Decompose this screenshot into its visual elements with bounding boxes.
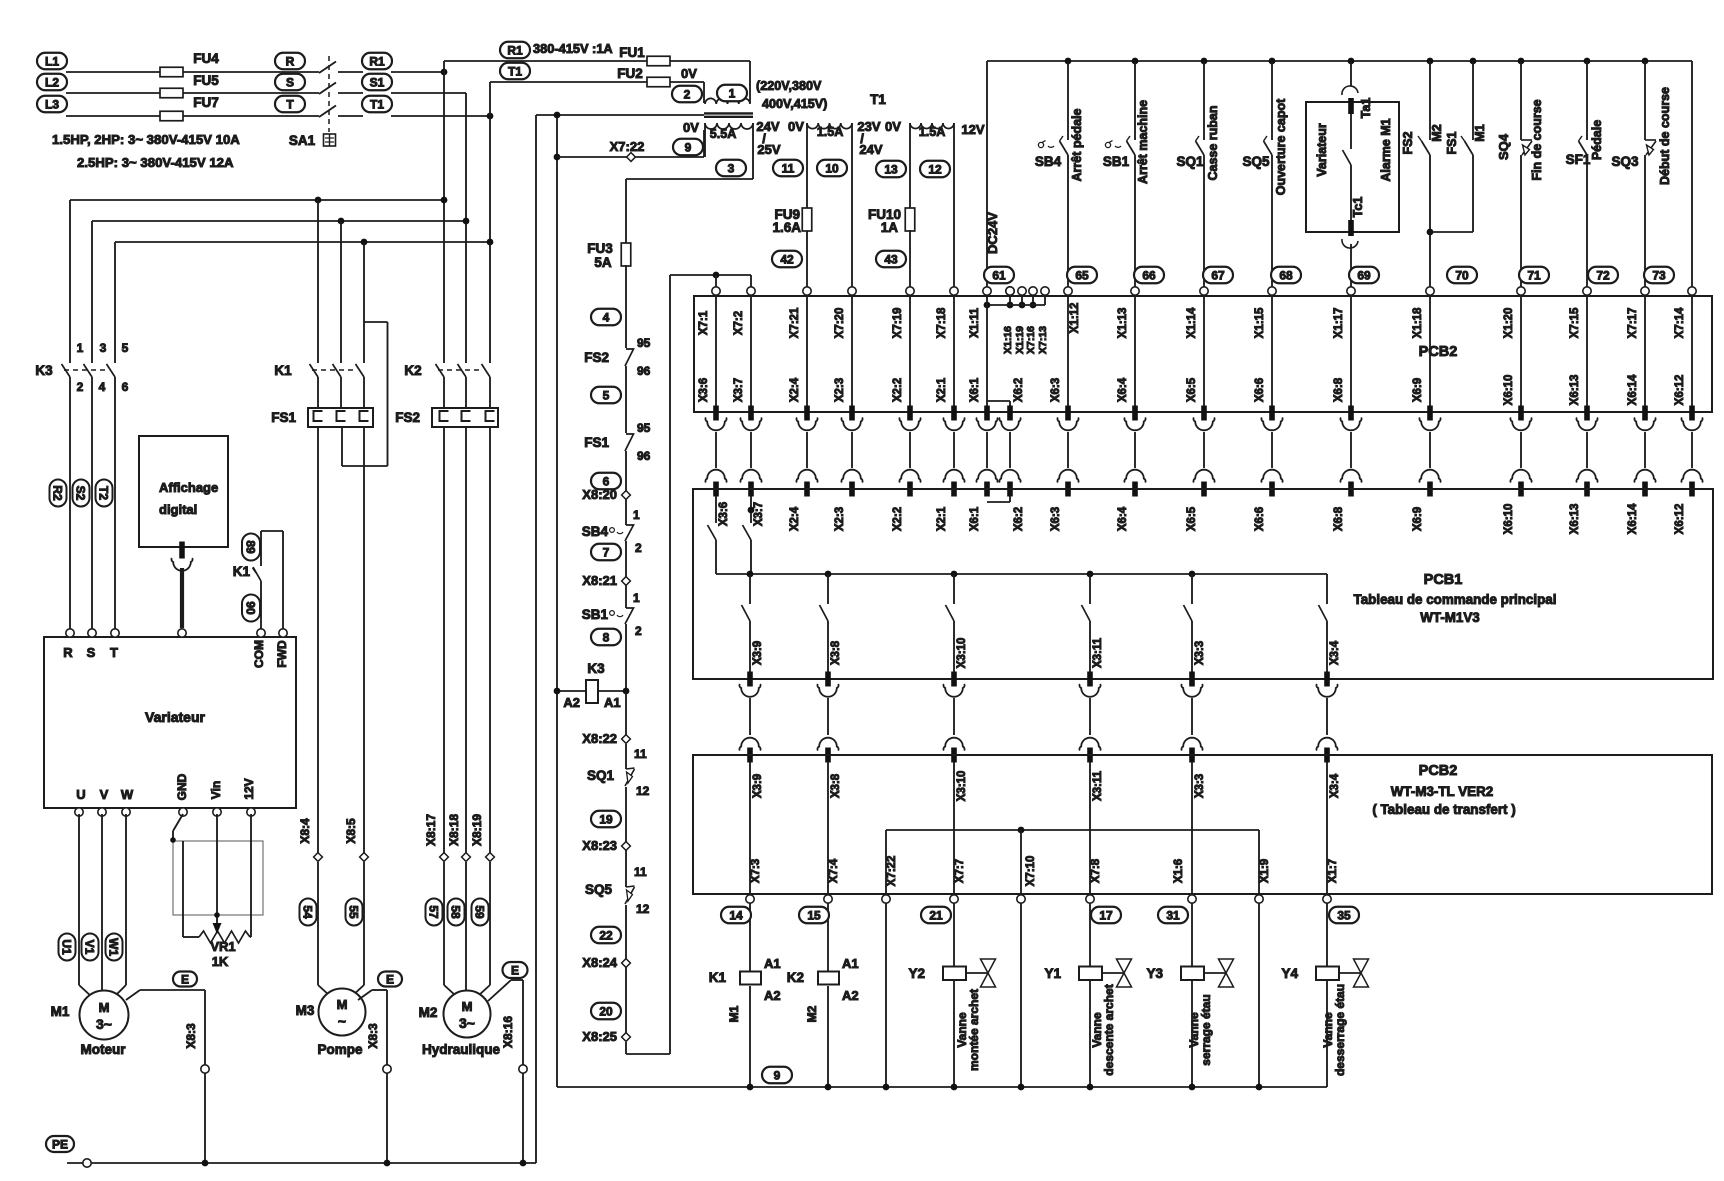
svg-text:24V: 24V: [756, 119, 779, 134]
wire: [1067, 432, 1069, 468]
svg-text:T: T: [286, 97, 294, 111]
node T1: [362, 96, 392, 113]
wire: [885, 830, 887, 895]
wire: [1429, 296, 1431, 406]
svg-text:X6:2: X6:2: [1013, 507, 1025, 531]
pin circle X7:21: [803, 287, 811, 295]
svg-text:65: 65: [1075, 268, 1089, 282]
wire: [827, 698, 829, 735]
connector pin X6:6 lower: [1269, 482, 1275, 497]
svg-text:FS1: FS1: [271, 410, 296, 425]
svg-text:X8:23: X8:23: [582, 838, 617, 853]
svg-text:61: 61: [992, 268, 1006, 282]
svg-text:X6:8: X6:8: [1333, 377, 1345, 402]
svg-text:R2: R2: [51, 485, 65, 501]
svg-text:17: 17: [1099, 908, 1113, 922]
node 2: [672, 86, 702, 103]
node 43: [876, 251, 906, 268]
wire M3 phase b: [363, 427, 365, 857]
contact X3:8: [827, 574, 829, 604]
wire: [806, 432, 808, 468]
svg-text:1: 1: [633, 591, 640, 605]
pin circle X1:12: [1064, 287, 1072, 295]
node 10: [817, 160, 847, 177]
wire: [885, 903, 887, 1087]
wire: [953, 903, 955, 967]
svg-text:12: 12: [636, 784, 650, 798]
svg-text:X7:13: X7:13: [1037, 326, 1049, 354]
wire: [1089, 903, 1091, 967]
svg-text:X8:19: X8:19: [470, 814, 484, 846]
connector pin X2:4 lower: [804, 482, 810, 497]
connector pin X3:6 lower: [713, 482, 719, 497]
control ladder rail: [625, 265, 627, 348]
node 13: [876, 161, 906, 178]
svg-text:6: 6: [122, 380, 129, 394]
svg-text:66: 66: [1142, 268, 1156, 282]
svg-text:K1: K1: [709, 970, 727, 985]
switch SA1 operator: [324, 134, 336, 146]
svg-text:4: 4: [603, 310, 610, 324]
connector pin X6:12 lower: [1689, 482, 1695, 497]
svg-text:Vin: Vin: [209, 781, 223, 799]
switch SF1: [1584, 58, 1591, 65]
contact X3:6: [715, 496, 717, 523]
valve Y2: [981, 959, 996, 973]
svg-text:WT-M3-TL VER2: WT-M3-TL VER2: [1391, 784, 1493, 799]
wire: [1520, 296, 1522, 406]
svg-text:X7:1: X7:1: [698, 310, 710, 335]
wire: [1020, 903, 1022, 1087]
svg-text:R: R: [286, 54, 295, 68]
svg-text:89: 89: [244, 540, 258, 554]
svg-text:Y2: Y2: [908, 966, 925, 981]
switch SB4: [1065, 58, 1072, 65]
svg-text:12V: 12V: [242, 778, 256, 799]
contact X3:7: [750, 496, 752, 523]
terminal X8:23: [622, 842, 631, 851]
wire: [953, 762, 955, 895]
svg-text:W: W: [121, 787, 134, 802]
switch SA1 pole: [319, 83, 336, 95]
wire: [114, 377, 116, 634]
svg-text:U1: U1: [60, 939, 74, 955]
fuse FU2: [647, 77, 670, 87]
svg-text:24V: 24V: [859, 142, 882, 157]
connector pin X6:2 lower: [1007, 482, 1013, 497]
node 67: [1203, 267, 1233, 284]
wire: [953, 432, 955, 468]
connector pin X6:13: [1584, 406, 1590, 421]
contact X3:3: [1191, 574, 1193, 604]
svg-text:descente archet: descente archet: [1102, 984, 1116, 1075]
connector pin X3:6: [713, 406, 719, 421]
svg-text:(220V,380V: (220V,380V: [756, 79, 822, 93]
svg-text:5: 5: [122, 341, 129, 355]
node 70: [1447, 267, 1477, 284]
wire: [1020, 830, 1022, 895]
svg-text:R: R: [63, 645, 73, 660]
svg-text:X3:7: X3:7: [733, 378, 745, 402]
svg-text:K3: K3: [587, 661, 605, 676]
wire screen to earth: [536, 114, 704, 116]
svg-text:Pompe: Pompe: [317, 1042, 363, 1057]
svg-text:K1: K1: [274, 363, 292, 378]
node 3: [716, 160, 746, 177]
node R: [275, 53, 305, 70]
terminal X8:24: [622, 959, 631, 968]
svg-text:X3:10: X3:10: [956, 771, 968, 802]
connector pin X3:8: [825, 672, 831, 687]
svg-text:X3:6: X3:6: [698, 378, 710, 402]
connector pin X6:5 lower: [1201, 482, 1207, 497]
svg-text:12: 12: [928, 162, 942, 176]
svg-text:X2:1: X2:1: [936, 377, 948, 402]
svg-text:X2:4: X2:4: [789, 377, 801, 402]
wire: [1691, 296, 1693, 406]
svg-text:71: 71: [1527, 268, 1541, 282]
svg-text:X6:6: X6:6: [1254, 378, 1266, 402]
motor M1: [78, 814, 80, 985]
connector pin X6:9: [1427, 406, 1433, 421]
pin circle X1:18: [1426, 287, 1434, 295]
connector pin X3:10: [951, 672, 957, 687]
switch SA1 pole: [319, 106, 336, 118]
terminal X8:5: [360, 853, 369, 862]
wire T1 row: [391, 115, 490, 117]
svg-text:K2: K2: [404, 363, 421, 378]
wire: [363, 242, 365, 363]
svg-text:96: 96: [637, 364, 651, 378]
wire: [1089, 698, 1091, 735]
svg-text:X6:9: X6:9: [1412, 507, 1424, 531]
node 71: [1519, 267, 1549, 284]
svg-text:X6:3: X6:3: [1050, 378, 1062, 402]
wire: [276, 71, 319, 73]
pin circle X6:2: [1006, 287, 1014, 295]
svg-text:Hydraulique: Hydraulique: [422, 1042, 501, 1057]
wire: [851, 432, 853, 468]
wire: [338, 92, 363, 94]
connector pin X2:1: [951, 406, 957, 421]
svg-text:10: 10: [825, 161, 839, 175]
node 9: [762, 1067, 792, 1084]
svg-text:X3:4: X3:4: [1329, 640, 1341, 665]
svg-text:X8:21: X8:21: [582, 573, 617, 588]
svg-text:Début de course: Début de course: [1658, 87, 1672, 185]
jumper X6:1-X6:2: [987, 400, 1010, 402]
svg-text:FU3: FU3: [587, 241, 613, 256]
connector pin X2:3 lower: [849, 482, 855, 497]
connector pin X3:7 lower: [748, 482, 754, 497]
pin circle X7:22: [882, 895, 890, 903]
wire: [1009, 432, 1011, 468]
svg-text:35: 35: [1337, 908, 1351, 922]
connector pin X2:2 lower: [907, 482, 913, 497]
svg-text:X8:22: X8:22: [582, 731, 617, 746]
svg-text:L1: L1: [45, 54, 59, 68]
svg-text:2: 2: [635, 624, 642, 638]
contact X3:4: [1326, 574, 1328, 604]
wire ladder return: [625, 1042, 627, 1054]
svg-text:U: U: [76, 787, 85, 802]
svg-text:9: 9: [774, 1068, 781, 1082]
svg-text:X6:12: X6:12: [1674, 504, 1686, 535]
svg-text:A1: A1: [604, 695, 621, 710]
node 31: [1158, 907, 1188, 924]
PCB PCB2 lower box: [693, 755, 1712, 894]
svg-text:FU5: FU5: [193, 73, 219, 88]
wire M2 phases: [443, 427, 445, 857]
svg-text:14: 14: [729, 908, 743, 922]
svg-text:X3:10: X3:10: [956, 638, 968, 669]
wire phase R to K3/K1: [70, 199, 444, 201]
svg-text:Arrêt pédale: Arrêt pédale: [1070, 108, 1084, 181]
node 14: [721, 907, 751, 924]
pin circle X1:20: [1517, 287, 1525, 295]
wire: [66, 92, 160, 94]
svg-text:5A: 5A: [594, 255, 612, 270]
node 11: [773, 160, 803, 177]
connector pin X3:4: [1324, 672, 1330, 687]
wire: [749, 903, 751, 971]
transformer secondary 1.5A (b): [910, 123, 954, 129]
node 5: [591, 387, 621, 404]
node S1: [362, 74, 392, 91]
wire: [749, 698, 751, 735]
terminal X8:20: [622, 491, 631, 500]
wire: [1134, 296, 1136, 406]
svg-text:X3:3: X3:3: [1194, 774, 1206, 798]
svg-text:FS1: FS1: [584, 435, 609, 450]
node 65: [1067, 267, 1097, 284]
svg-text:SQ1: SQ1: [587, 768, 615, 783]
node 9: [673, 139, 703, 156]
connector pin X2:3: [849, 406, 855, 421]
contact variateur alarm: [1343, 150, 1352, 165]
svg-text:SQ5: SQ5: [1242, 154, 1270, 169]
wire M2 earth: [488, 980, 511, 1001]
svg-text:X8:16: X8:16: [501, 1016, 515, 1048]
node L2: [37, 74, 67, 91]
node 1: [717, 85, 747, 102]
node 57: [426, 899, 443, 926]
pin: [111, 629, 119, 637]
limit contact SQ1: [625, 744, 627, 769]
wire: [444, 60, 647, 62]
svg-text:72: 72: [1596, 268, 1610, 282]
transducer Tc1: [1348, 220, 1354, 236]
svg-text:X8:25: X8:25: [582, 1029, 617, 1044]
wire: [1191, 762, 1193, 895]
svg-text:Tableau de commande principal: Tableau de commande principal: [1354, 592, 1557, 607]
limit contact SQ5: [625, 850, 627, 887]
node E: [503, 962, 528, 978]
svg-text:X3:4: X3:4: [1329, 773, 1341, 798]
connector pin X6:4 lower: [1132, 482, 1138, 497]
pin circle X7:2: [747, 287, 755, 295]
svg-text:M2: M2: [1430, 124, 1444, 141]
svg-text:PE: PE: [52, 1137, 68, 1151]
svg-text:X1:11: X1:11: [969, 307, 981, 338]
pin circle X7:3: [746, 895, 754, 903]
pin: [279, 629, 287, 637]
svg-text:X3:9: X3:9: [752, 774, 764, 798]
svg-text:2.5HP: 3~ 380V-415V 12A: 2.5HP: 3~ 380V-415V 12A: [77, 155, 234, 170]
svg-text:COM: COM: [252, 640, 266, 668]
cable display to variateur: [179, 542, 185, 559]
svg-text:SA1: SA1: [289, 133, 316, 148]
svg-text:1A: 1A: [881, 220, 899, 235]
svg-text:E: E: [386, 972, 394, 986]
svg-text:L3: L3: [45, 97, 59, 111]
connector pin X6:5: [1201, 406, 1207, 421]
pin circle X7:17: [1641, 287, 1649, 295]
node 6: [591, 473, 621, 490]
wire 24V to FU3: [626, 178, 753, 180]
pin: [247, 808, 255, 816]
svg-text:FS1: FS1: [1445, 131, 1459, 154]
svg-text:Tc1: Tc1: [1351, 197, 1365, 218]
connector pin X3:10 lower: [951, 748, 957, 763]
node 35: [1329, 907, 1359, 924]
wire phase T to K3/K1: [115, 241, 490, 243]
node L3: [37, 96, 67, 113]
svg-text:11: 11: [634, 747, 647, 761]
svg-text:1.5A: 1.5A: [817, 125, 844, 139]
svg-text:67: 67: [1211, 268, 1225, 282]
svg-text:PCB2: PCB2: [1419, 344, 1458, 360]
node 59: [472, 899, 489, 926]
svg-text:X7:2: X7:2: [733, 311, 745, 335]
svg-text:X7:19: X7:19: [892, 308, 904, 339]
svg-text:X3:11: X3:11: [1092, 770, 1104, 801]
wire: [1203, 432, 1205, 468]
svg-text:X6:8: X6:8: [1333, 506, 1345, 531]
connector pin X3:9 lower: [747, 748, 753, 763]
wire: [909, 432, 911, 468]
svg-text:T1: T1: [370, 97, 384, 111]
node R1: [362, 53, 392, 70]
connector pin X6:1 lower: [984, 482, 990, 497]
svg-text:X7:14: X7:14: [1674, 307, 1686, 338]
svg-text:0V: 0V: [885, 119, 901, 134]
connector pin X3:11: [1087, 672, 1093, 687]
wire DC24V top bus: [987, 60, 1692, 62]
svg-text:A2: A2: [563, 695, 580, 710]
wire: [1326, 762, 1328, 895]
svg-text:M3: M3: [296, 1003, 315, 1018]
node 19: [591, 811, 621, 828]
wire: [909, 296, 911, 406]
node 58: [448, 899, 465, 926]
pin: [213, 808, 221, 816]
contact X3:11: [1089, 574, 1091, 604]
variateur alarm box: [1306, 102, 1399, 232]
svg-text:FU2: FU2: [617, 66, 643, 81]
svg-text:WT-M1V3: WT-M1V3: [1420, 610, 1480, 625]
svg-text:9: 9: [685, 140, 692, 154]
svg-text:1: 1: [77, 341, 84, 355]
svg-text:S: S: [87, 645, 96, 660]
svg-text:E: E: [511, 963, 519, 977]
wire: [1271, 432, 1273, 468]
svg-text:X3:3: X3:3: [1194, 641, 1206, 665]
svg-text:M1: M1: [51, 1004, 70, 1019]
svg-text:M: M: [462, 999, 473, 1014]
wire: [851, 296, 853, 406]
pin circle X1:6: [1188, 895, 1196, 903]
svg-text:FS2: FS2: [584, 350, 609, 365]
node S: [275, 74, 305, 91]
svg-text:X6:4: X6:4: [1117, 377, 1129, 402]
svg-text:A2: A2: [764, 988, 781, 1003]
svg-text:SB4: SB4: [1035, 154, 1062, 169]
svg-text:R1: R1: [369, 54, 385, 68]
svg-text:X8:20: X8:20: [582, 487, 617, 502]
overload FS2: [432, 408, 498, 427]
svg-text:90: 90: [244, 601, 258, 615]
svg-text:X7:7: X7:7: [954, 859, 966, 883]
wire: [749, 762, 751, 895]
wire R1 row: [391, 71, 444, 73]
svg-text:montée archet: montée archet: [967, 989, 981, 1071]
node 21: [921, 907, 951, 924]
wire M3 phase a: [317, 427, 319, 857]
pin circle X7:1: [712, 287, 720, 295]
connector pin X3:4 lower: [1324, 748, 1330, 763]
terminal X7:22: [627, 153, 636, 162]
pin: [178, 629, 186, 637]
svg-text:Alarme M1: Alarme M1: [1379, 118, 1393, 181]
svg-text:X6:10: X6:10: [1503, 375, 1515, 406]
PCB PCB2 upper box: [694, 296, 1712, 412]
wire: [69, 377, 71, 634]
svg-text:X1:15: X1:15: [1254, 307, 1266, 338]
node R1 top: [500, 42, 530, 59]
svg-text:X6:13: X6:13: [1569, 504, 1581, 535]
wire: [1258, 830, 1260, 895]
svg-text:X2:1: X2:1: [936, 506, 948, 531]
connector pin X3:8 lower: [825, 748, 831, 763]
wire M1 earth: [126, 990, 140, 1000]
wire M3 earth: [358, 990, 372, 1000]
connector pin X6:9 lower: [1427, 482, 1433, 497]
node T2: [96, 480, 113, 507]
svg-text:desserrage étau: desserrage étau: [1333, 984, 1347, 1076]
node V1: [82, 934, 99, 961]
svg-text:X6:5: X6:5: [1186, 506, 1198, 531]
svg-text:20: 20: [599, 1004, 613, 1018]
wire: [1134, 432, 1136, 468]
connector pin X6:8 lower: [1348, 482, 1354, 497]
overload FS1: [308, 408, 373, 427]
svg-text:15: 15: [807, 908, 821, 922]
wire: [1089, 762, 1091, 895]
svg-text:~: ~: [338, 1013, 346, 1029]
wire: [66, 115, 160, 117]
svg-text:A2: A2: [842, 988, 859, 1003]
wire: [183, 92, 276, 94]
wire: [1691, 432, 1693, 468]
node E: [173, 972, 197, 987]
wire: [827, 903, 829, 971]
svg-text:X6:9: X6:9: [1412, 378, 1424, 402]
wire: [986, 296, 988, 406]
svg-text:FWD: FWD: [275, 640, 289, 668]
svg-text:X6:14: X6:14: [1627, 374, 1639, 405]
connector pin X2:4: [804, 406, 810, 421]
